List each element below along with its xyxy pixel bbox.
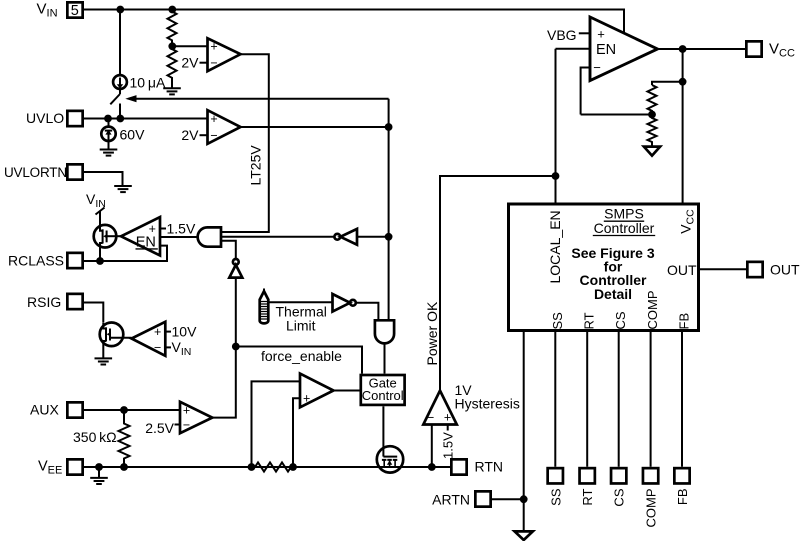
svg-text:AUX: AUX: [30, 402, 59, 418]
svg-text:FB: FB: [677, 313, 692, 330]
svg-text:+: +: [210, 112, 217, 126]
pin VIN box (pin 5): [67, 2, 82, 19]
svg-text:+: +: [597, 26, 605, 41]
pin VEE box: [67, 459, 82, 474]
svg-text:OUT: OUT: [667, 262, 697, 278]
wire U2 output to enable junction: [241, 126, 389, 128]
wire 1.5V dash to U3 plus input: [160, 228, 166, 230]
thermistor (thermal sensor): [260, 289, 269, 324]
zener clamp 60V: [101, 119, 115, 149]
node UVLO junction at x=120: [116, 115, 124, 123]
pin RCLASS box: [67, 253, 82, 268]
node sense resistor right: [289, 463, 297, 471]
svg-text:COMP: COMP: [644, 489, 659, 528]
transistor Q3 (pass MOSFET on RTN rail): [377, 406, 403, 472]
resistor divider upper R at VIN: [168, 10, 177, 47]
wire ARTN to analog ground line: [492, 498, 524, 500]
node VCC output junction: [679, 45, 687, 53]
resistor feedback lower: [648, 115, 657, 147]
wire VEE/RTN rail: [84, 466, 450, 468]
svg-text:UVLORTN: UVLORTN: [4, 165, 67, 180]
svg-text:10 μA: 10 μA: [130, 75, 166, 91]
svg-text:LOCAL_EN: LOCAL_EN: [547, 210, 563, 283]
svg-text:OUT: OUT: [770, 262, 800, 278]
svg-text:LT25V: LT25V: [248, 145, 264, 186]
wire LOCAL_EN vertical to amp EN and block: [555, 49, 557, 203]
node AUX junction: [120, 406, 128, 414]
svg-text:RT: RT: [582, 312, 597, 329]
block U9 SMPS Controller: [509, 204, 699, 331]
wire COMP pin: [650, 332, 652, 467]
op-amp U5 (current sense amp): [300, 374, 334, 408]
gate A2 (2-input AND, pointing down): [375, 320, 394, 343]
pin UVLORTN box: [67, 164, 82, 179]
comparator U7 (Power OK, pointing up): [423, 391, 457, 425]
wire A1 output to U3 EN input: [160, 236, 198, 238]
wire 10V dash to U4 plus: [165, 331, 171, 333]
svg-text:RTN: RTN: [475, 459, 504, 475]
pin SS box: [548, 468, 563, 483]
wire RCLASS rail and feedback step to U3 inverting input: [84, 246, 167, 261]
svg-text:SS: SS: [548, 488, 563, 506]
wire force_enable: [236, 347, 362, 374]
pin RTN box: [451, 459, 466, 474]
op-amp U8 (VCC regulator): [590, 17, 658, 81]
pin UVLO box: [67, 111, 82, 126]
svg-text:SS: SS: [550, 312, 565, 330]
wire tap to comparator U1 + input: [172, 45, 208, 47]
wire thermistor to inverter N3: [269, 301, 333, 303]
pin VCC box: [746, 41, 761, 56]
wire VBG dash to U8 plus: [579, 32, 591, 34]
node UVLO junction at x=108: [104, 115, 112, 123]
pin RSIG box: [67, 294, 82, 309]
wire A1 middle input from inverter N1: [221, 236, 335, 238]
wire VIN down to 10uA source: [119, 10, 121, 76]
comparator U1 (VIN 2V): [208, 38, 241, 71]
wire arrow from enable line to switch: [129, 98, 389, 100]
wire VIN tick down to FET Q1: [99, 212, 101, 226]
wire RSIG to FET Q2: [84, 303, 103, 323]
svg-text:10V: 10V: [172, 323, 198, 339]
node feedback divider tap: [648, 111, 656, 119]
svg-text:1.5V: 1.5V: [441, 432, 456, 459]
svg-text:ARTN: ARTN: [432, 492, 470, 508]
analog ground triangle: [515, 531, 533, 540]
resistor feedback upper: [648, 85, 657, 115]
pin FB box: [674, 468, 689, 483]
wire feedback top to divider: [652, 82, 683, 85]
svg-text:−: −: [183, 418, 190, 432]
svg-text:CS: CS: [613, 311, 628, 329]
wire 2V dash to U2 minus: [200, 134, 208, 136]
wire UVLO rail to comparator U2: [84, 118, 208, 120]
node force_enable tap: [232, 343, 240, 351]
wire A2 output to Gate Control: [384, 343, 386, 373]
inverter N1 (pointing left): [334, 229, 357, 245]
wire tap to U8 minus: [581, 114, 652, 116]
current source 10uA: [113, 75, 127, 89]
wire Q2 source to ground: [102, 346, 104, 358]
wire U1 output down LT25V line to AND A1 top input: [221, 54, 269, 232]
resistor 350k: [119, 410, 130, 467]
node 350k bottom junction: [120, 463, 128, 471]
wire U5 output to Gate Control: [334, 390, 361, 392]
transistor Q2 (RSIG MOSFET): [100, 323, 132, 347]
wire VIN rail to top-right amp supply: [84, 10, 624, 34]
svg-text:−: −: [210, 128, 217, 142]
node VIN-rail junction at x=120: [116, 6, 124, 14]
wire Q1 source to RCLASS rail: [99, 247, 101, 261]
pin AUX box: [67, 402, 82, 417]
svg-text:+: +: [303, 391, 310, 405]
node RCLASS junction: [96, 257, 104, 265]
node feedback top junction: [679, 78, 687, 86]
wire UVLORTN to ground: [84, 172, 123, 185]
svg-text:Detail: Detail: [594, 286, 632, 302]
wire U8 output to VCC pin: [658, 48, 746, 50]
wire N3 output to AND A2: [356, 303, 379, 321]
svg-text:Hysteresis: Hysteresis: [455, 395, 520, 411]
svg-text:RCLASS: RCLASS: [8, 253, 64, 269]
op-amp U3 (RCLASS EN amp): [121, 217, 160, 256]
wire A1 bottom input from inverter N2: [221, 241, 236, 259]
resistor divider lower R: [168, 46, 177, 87]
ground at VEE: [90, 467, 108, 484]
wire source to switch contact: [119, 89, 121, 94]
svg-text:Power OK: Power OK: [424, 301, 440, 365]
svg-text:2.5V: 2.5V: [145, 420, 174, 436]
svg-text:RT: RT: [580, 488, 595, 505]
svg-text:5: 5: [71, 3, 79, 19]
wire analog ground line from SMPS block: [523, 332, 525, 531]
wire output down to feedback divider and block VCC: [682, 49, 684, 203]
wire EN input to amp U8: [556, 48, 591, 50]
wire U7 minus input to RTN rail: [431, 425, 433, 468]
svg-text:2V: 2V: [181, 127, 199, 143]
node enable line junction at N1: [385, 233, 393, 241]
wire N2 input from AUX comparator output: [212, 278, 236, 418]
svg-text:CS: CS: [612, 488, 627, 506]
wire enable vertical line: [388, 99, 390, 321]
node enable junction: [385, 123, 393, 131]
ground UVLORTN: [114, 186, 132, 192]
ground below 60V: [100, 150, 118, 156]
comparator U6 (AUX 2.5V): [180, 402, 212, 433]
svg-text:Limit: Limit: [286, 318, 316, 334]
svg-text:−: −: [427, 410, 434, 424]
inverter N3 (thermal, pointing right): [333, 294, 356, 312]
svg-text:Controller: Controller: [594, 220, 655, 236]
wire U5 plus input to VEE rail: [293, 398, 300, 467]
svg-text:350 kΩ: 350 kΩ: [73, 429, 117, 445]
pin ARTN box: [475, 491, 490, 506]
node RTN junction: [428, 463, 436, 471]
wire FB pin: [681, 332, 683, 467]
wire AUX rail to comparator U6: [84, 409, 180, 411]
wire 2V dash to U1 minus: [200, 62, 208, 64]
wire SS pin: [554, 332, 556, 467]
node ARTN junction: [520, 495, 528, 503]
svg-text:+: +: [210, 40, 217, 54]
node sense resistor left: [248, 463, 256, 471]
svg-text:+: +: [444, 410, 451, 424]
wire OUT to pin box: [700, 268, 747, 270]
svg-text:VBG: VBG: [547, 27, 577, 43]
pin CS box: [611, 468, 626, 483]
svg-text:Control: Control: [362, 388, 404, 403]
wire 2.5V dash to U6 minus: [175, 424, 181, 426]
switch blade: [110, 94, 120, 104]
wire Power OK line to LOCAL_EN: [440, 176, 556, 391]
svg-text:RSIG: RSIG: [27, 294, 61, 310]
svg-text:UVLO: UVLO: [26, 110, 64, 126]
supply tick: [96, 208, 105, 215]
svg-text:−: −: [593, 60, 601, 75]
node VEE ground junction: [95, 463, 103, 471]
pin RT box: [580, 468, 595, 483]
wire CS pin: [618, 332, 620, 467]
block Gate Control: [361, 375, 405, 405]
wire U5 top input to VEE rail: [252, 381, 301, 467]
transistor Q1 (RCLASS MOSFET): [94, 225, 121, 248]
svg-text:+: +: [154, 325, 161, 339]
node LOCAL_EN junction: [552, 172, 560, 180]
svg-text:1.5V: 1.5V: [167, 220, 196, 236]
svg-text:−: −: [210, 56, 217, 70]
pin COMP box: [643, 468, 658, 483]
ground below divider: [163, 88, 181, 94]
svg-text:FB: FB: [675, 489, 690, 506]
node VIN-rail junction at x=172: [168, 6, 176, 14]
wire VIN dash to U4 minus: [165, 346, 171, 348]
op-amp U4 (RSIG amp): [132, 322, 166, 356]
svg-text:60V: 60V: [120, 127, 146, 143]
ground triangle below divider: [644, 147, 660, 156]
resistor sense (in VEE rail): [255, 462, 291, 471]
svg-text:−: −: [154, 341, 161, 355]
wire RT pin: [586, 332, 588, 467]
wire switch lower contact to UVLO rail: [119, 104, 121, 119]
node divider tap: [168, 42, 176, 50]
inverter N2 (pointing up): [229, 259, 242, 278]
pin OUT box: [747, 262, 762, 277]
svg-text:2V: 2V: [181, 54, 199, 70]
svg-text:COMP: COMP: [645, 291, 660, 330]
ground below Q2: [95, 358, 113, 364]
comparator U2 (UVLO 2V): [208, 110, 241, 144]
wire U7 plus input stub: [447, 425, 449, 431]
svg-text:force_enable: force_enable: [261, 348, 342, 364]
wire N1 input from enable line: [357, 236, 389, 238]
svg-text:EN: EN: [596, 42, 616, 58]
svg-text:+: +: [183, 403, 190, 417]
gate A1 (3-input AND, pointing left): [198, 227, 221, 246]
wire U8 minus input to feedback: [581, 68, 590, 115]
